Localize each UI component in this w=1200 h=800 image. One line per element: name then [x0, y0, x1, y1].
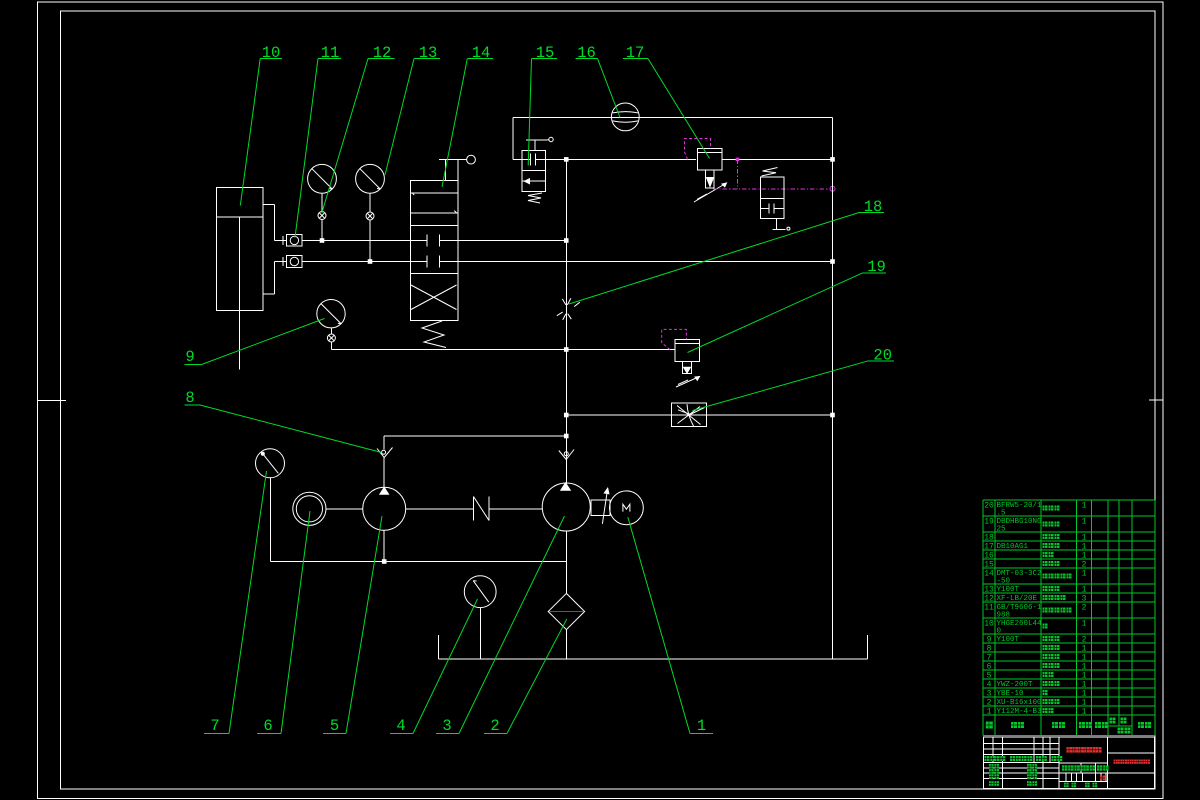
check valve 11a seat tick [282, 236, 284, 245]
svg-text:XU-B16x100: XU-B16x100 [997, 699, 1043, 707]
wire gauge 12 stem [321, 193, 323, 211]
svg-text:6: 6 [263, 717, 272, 735]
valve 19 pilot line [662, 329, 687, 349]
label 6 [257, 511, 310, 735]
wire shaft to pump 3 [489, 508, 542, 510]
svg-text:988: 988 [997, 612, 1011, 620]
junction main/y415 [564, 413, 569, 418]
wire gauge 12 to A line [321, 220, 323, 241]
label 2 [484, 619, 567, 735]
valve 17 pilot line [685, 139, 711, 160]
junction A-line/main vertical [564, 238, 569, 243]
wire suction line y561 [271, 561, 567, 563]
drawing title [1067, 747, 1073, 753]
svg-text:1: 1 [1082, 653, 1087, 662]
svg-text:1: 1 [1082, 619, 1087, 628]
svg-text:10: 10 [262, 44, 281, 62]
svg-text:1: 1 [1082, 569, 1087, 578]
throttle orifice 18 [557, 298, 580, 320]
label 7 [204, 471, 267, 735]
cylinder port block [263, 205, 275, 295]
cylinder 10 rod [238, 217, 240, 369]
wire gauge 9 stem [330, 328, 332, 334]
junction y159/return vertical [830, 157, 835, 162]
svg-text:11: 11 [984, 603, 994, 612]
valve 15 lever handle [526, 137, 553, 150]
pilot line to remote port [713, 158, 835, 192]
svg-text:5: 5 [987, 671, 992, 680]
unloading valve 15 [522, 151, 546, 192]
pressure gauge 9 [317, 300, 345, 328]
svg-text:1: 1 [1082, 551, 1087, 560]
svg-text:4: 4 [987, 680, 992, 689]
label 5 [323, 516, 382, 735]
svg-text:2: 2 [1082, 603, 1087, 612]
cylinder 10 piston [216, 216, 262, 218]
svg-text:12: 12 [984, 594, 994, 603]
wire main pressure vertical [565, 159, 567, 487]
wire top return line y117 [513, 117, 833, 119]
svg-text:DB10AG1: DB10AG1 [997, 543, 1029, 551]
svg-text:Y112M-4-B3: Y112M-4-B3 [997, 708, 1043, 716]
electric motor 1 [610, 491, 644, 525]
svg-text:7: 7 [987, 653, 992, 662]
check valve 11b seat tick [282, 257, 284, 266]
wire y415 line [566, 414, 832, 416]
label 4 [390, 599, 478, 735]
svg-text:1: 1 [1082, 501, 1087, 510]
svg-text:1: 1 [1082, 644, 1087, 653]
pressure relay spring [762, 168, 778, 177]
svg-text:15: 15 [536, 44, 555, 62]
label 10 [240, 44, 282, 206]
svg-text:1: 1 [1082, 689, 1087, 698]
wire return vertical x832 [832, 118, 834, 660]
wire y159 line mid [546, 158, 697, 160]
svg-text:1: 1 [987, 707, 992, 716]
svg-text:3: 3 [987, 689, 992, 698]
variable displacement arrow [602, 488, 609, 524]
wire pump5 suction down [383, 530, 385, 561]
svg-text:1: 1 [1082, 698, 1087, 707]
thermometer 7 [256, 449, 285, 478]
svg-text:2: 2 [490, 717, 499, 735]
wire A line right [458, 240, 566, 242]
svg-text:11: 11 [321, 44, 340, 62]
pressure gauge 13 [356, 164, 385, 193]
directional valve 14 [411, 181, 458, 321]
svg-text:Y100T: Y100T [997, 586, 1020, 594]
parts list table [983, 500, 1155, 736]
valve 14 spring [422, 321, 446, 348]
wire valve15 left port loop [513, 118, 522, 160]
project title [1114, 760, 1118, 764]
wire pump3 suction down [565, 531, 567, 593]
wire y159 line right [722, 158, 833, 160]
label 19 [688, 258, 887, 353]
junction B-line/return vertical [830, 259, 835, 264]
pressure relay drain [773, 218, 790, 230]
title block [983, 737, 1154, 789]
svg-text:12: 12 [373, 44, 392, 62]
junction gauge13/B-line [368, 259, 373, 264]
wire gauge 13 stem [369, 193, 371, 212]
wire cylinder A port [275, 240, 287, 242]
label 9 [185, 319, 325, 367]
gauge 9 isolator valve [327, 334, 335, 342]
svg-text:1: 1 [1082, 671, 1087, 680]
svg-text:25: 25 [997, 526, 1007, 534]
label 16 [576, 44, 621, 118]
svg-text:16: 16 [984, 551, 994, 560]
left centering tick [38, 399, 66, 401]
svg-text:1: 1 [1082, 680, 1087, 689]
svg-text:19: 19 [984, 517, 994, 526]
wire gauge 13 to B line [369, 220, 371, 262]
label 13 [385, 44, 440, 175]
svg-text:1: 1 [1082, 533, 1087, 542]
shaft symbol N [474, 497, 490, 521]
svg-text:1: 1 [697, 717, 706, 735]
svg-text:1: 1 [1082, 662, 1087, 671]
junction suction line [382, 559, 387, 564]
suction filter 2 [548, 593, 584, 629]
svg-text:15: 15 [984, 560, 994, 569]
wire unload line y436 [384, 435, 566, 437]
valve 15 spring [528, 193, 542, 203]
gauge coupler 6 [293, 492, 326, 525]
title block texts [985, 756, 1109, 787]
svg-text:0: 0 [997, 628, 1002, 636]
svg-text:Y100T: Y100T [997, 636, 1020, 644]
label 3 [436, 516, 565, 735]
svg-text:1: 1 [1082, 517, 1087, 526]
svg-text:13: 13 [984, 585, 994, 594]
svg-text:16: 16 [577, 44, 596, 62]
main pump 3 [542, 483, 590, 531]
label 1 [628, 517, 713, 735]
right centering tick [1149, 399, 1163, 401]
wire B line right [458, 261, 833, 263]
wire B line left [302, 261, 410, 263]
svg-text:YBE-10: YBE-10 [997, 690, 1025, 698]
shaft coupling [591, 500, 610, 516]
label 20 [693, 347, 895, 411]
svg-text:2: 2 [987, 698, 992, 707]
svg-text:17: 17 [984, 542, 994, 551]
label 15 [528, 44, 557, 166]
svg-text:.5: .5 [997, 510, 1007, 518]
svg-text:3: 3 [442, 717, 451, 735]
svg-text:1: 1 [1082, 542, 1087, 551]
svg-text:14: 14 [984, 569, 994, 578]
wire pump5 to shaft [406, 508, 474, 510]
svg-text:9: 9 [185, 348, 194, 366]
svg-text:14: 14 [472, 44, 491, 62]
check valve 11a [287, 235, 303, 247]
svg-text:8: 8 [987, 644, 992, 653]
pressure gauge 12 [308, 164, 337, 193]
svg-text:10: 10 [984, 619, 994, 628]
svg-text:13: 13 [419, 44, 438, 62]
svg-text:4: 4 [396, 717, 405, 735]
label 12 [322, 44, 395, 213]
flow control valve 20 [671, 403, 706, 426]
svg-text:6: 6 [987, 662, 992, 671]
junction main/y436 [564, 434, 569, 439]
svg-text:2: 2 [1082, 560, 1087, 569]
wire cylinder B port [275, 261, 287, 263]
valve 14 lever [439, 155, 475, 180]
junction y349/main vertical [564, 347, 569, 352]
svg-text:18: 18 [984, 533, 994, 542]
label 17 [623, 44, 709, 159]
check valve 11b [287, 256, 303, 268]
relief valve 17 [694, 149, 727, 203]
cooler 16 [611, 103, 639, 131]
pressure relay (switch) [760, 177, 784, 218]
level gauge 4 [464, 576, 496, 608]
label 11 [295, 44, 341, 238]
svg-text:5: 5 [330, 717, 339, 735]
label 18 [569, 198, 884, 304]
svg-text:XF-LB/20E: XF-LB/20E [997, 595, 1038, 603]
wire coupler-pump [326, 508, 363, 510]
junction main/y159 line [564, 157, 569, 162]
small pump inlet arrow [377, 436, 393, 458]
gauge 13 isolator valve [366, 212, 374, 220]
wire pilot pressure line y349 [331, 349, 674, 351]
junction gauge12/A-line [320, 238, 325, 243]
svg-text:9: 9 [987, 635, 992, 644]
label 8 [185, 389, 382, 453]
svg-text:17: 17 [626, 44, 645, 62]
junction y415/return vertical [830, 413, 835, 418]
svg-text:YWZ-200T: YWZ-200T [997, 681, 1034, 689]
svg-text:18: 18 [864, 198, 883, 216]
svg-text:2: 2 [1082, 635, 1087, 644]
svg-text:20: 20 [984, 501, 994, 510]
label 14 [442, 44, 493, 187]
svg-text:1: 1 [1082, 585, 1087, 594]
svg-text:7: 7 [210, 717, 219, 735]
svg-text:3: 3 [1082, 594, 1087, 603]
big pump inlet arrow [559, 450, 574, 460]
wire gauge 4 stem [480, 608, 482, 660]
cylinder 10 body [216, 187, 262, 310]
svg-text:20: 20 [873, 347, 892, 365]
parts list text [984, 501, 1151, 733]
svg-text:YHGE260L44: YHGE260L44 [997, 620, 1043, 628]
wire filter to tank [565, 630, 567, 660]
relief valve 19 [675, 339, 700, 387]
pilot pump 5 [363, 458, 406, 531]
wire A line left [302, 240, 410, 242]
svg-text:8: 8 [185, 389, 194, 407]
gauge 12 isolator valve [318, 212, 326, 220]
wire thermometer stem [270, 478, 272, 562]
svg-text:-50: -50 [997, 578, 1011, 586]
wire gauge 9 down [330, 342, 332, 350]
oil tank [439, 635, 868, 659]
svg-text:1: 1 [1082, 707, 1087, 716]
